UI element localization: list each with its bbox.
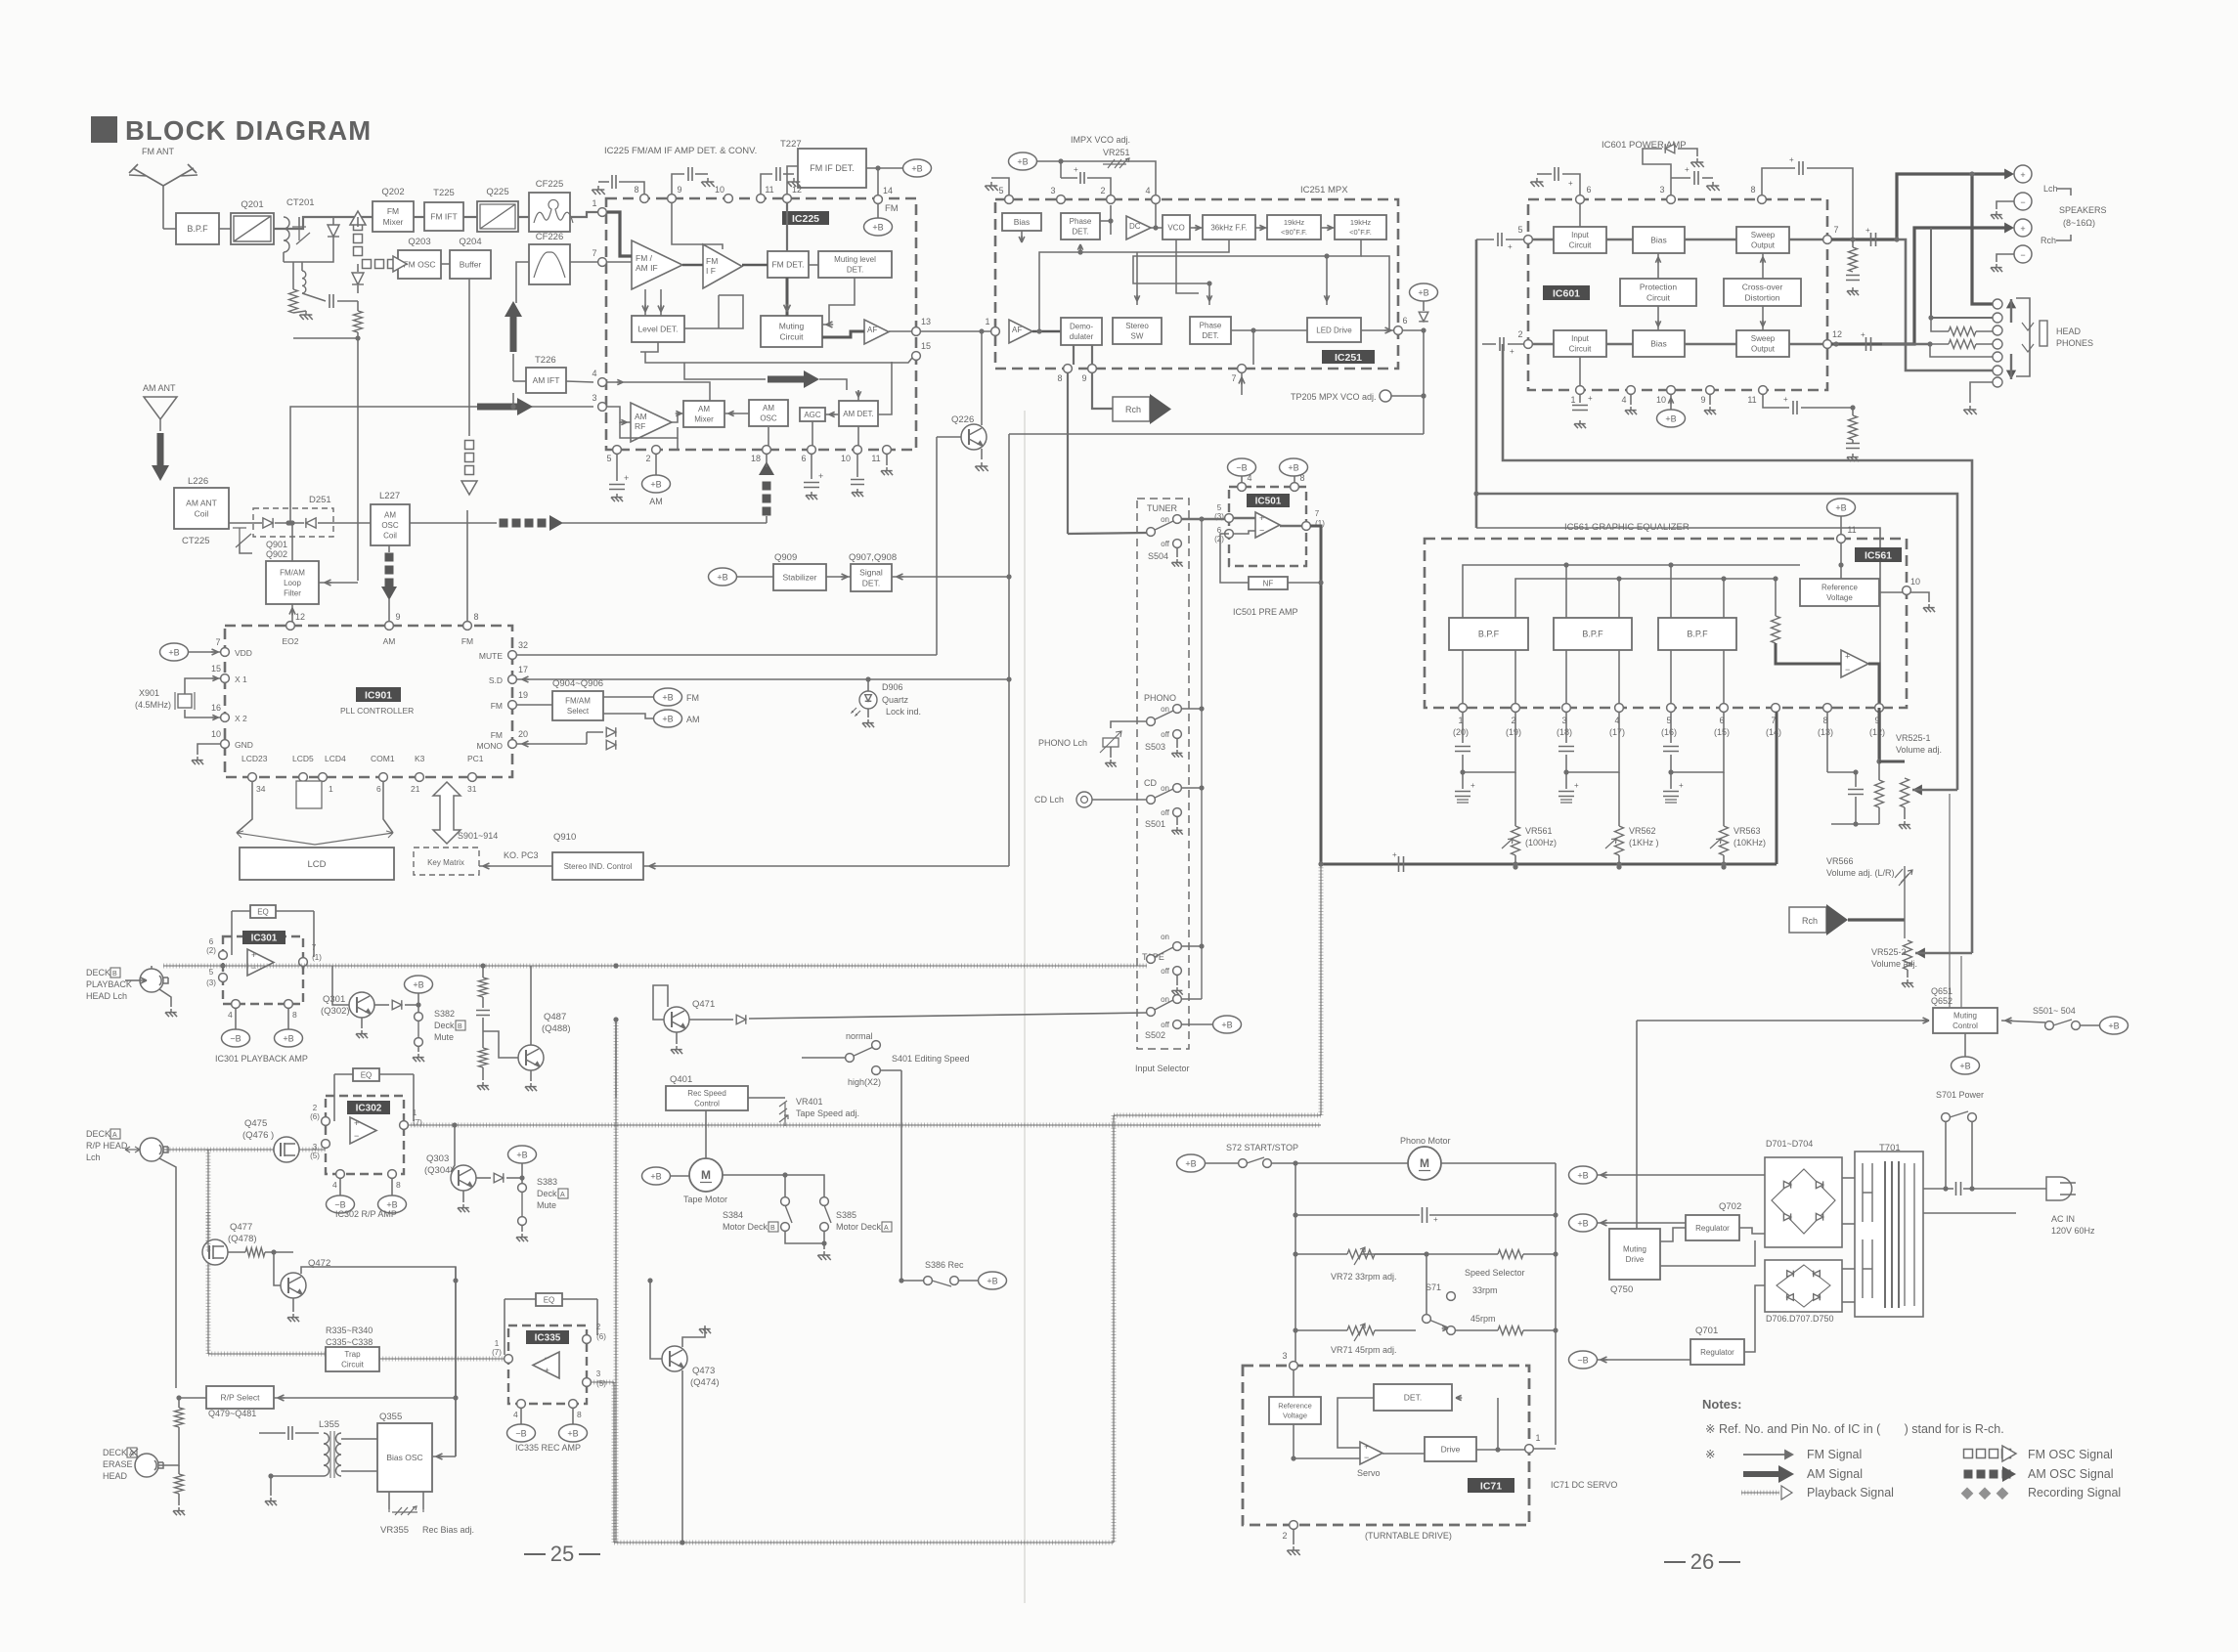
svg-text:(6): (6) [596, 1332, 606, 1341]
pin 1 ic71 [1525, 1433, 1541, 1453]
wire PD2 right to LED [1231, 329, 1307, 331]
svg-text:Output: Output [1751, 241, 1776, 250]
svg-text:B.P.F: B.P.F [187, 224, 208, 234]
wire pin6 net right [1402, 329, 1424, 331]
svg-text:VR72 33rpm adj.: VR72 33rpm adj. [1331, 1272, 1397, 1282]
block Protection Circuit [1620, 279, 1696, 306]
wire phase2 up [1208, 283, 1210, 305]
wire LCD fanout left [237, 781, 252, 833]
wire select bottom [578, 720, 587, 732]
svg-text:+: + [251, 950, 256, 960]
svg-text:4: 4 [332, 1180, 337, 1190]
svg-text:3: 3 [596, 1369, 601, 1378]
wire s72 to motor [1271, 1162, 1408, 1164]
svg-text:+B: +B [650, 479, 661, 489]
svg-text:PHONO: PHONO [1144, 693, 1176, 703]
tag IC501 [1247, 494, 1290, 507]
+B supply T227 [903, 159, 932, 177]
switch S503 blade [1151, 711, 1173, 721]
svg-text:4: 4 [1145, 186, 1150, 196]
svg-text:8: 8 [396, 1180, 401, 1190]
svg-text:+B: +B [1665, 413, 1676, 423]
svg-text:−B: −B [1577, 1355, 1588, 1365]
svg-text:(18): (18) [1557, 727, 1572, 737]
capacitor eq1 [1462, 712, 1464, 743]
svg-text:9: 9 [395, 612, 400, 622]
pin 2(6) ic302 [322, 1117, 330, 1126]
svg-text:Input: Input [1571, 231, 1590, 239]
wire D251-L227 [333, 522, 371, 524]
wire mutd right [1660, 1228, 1686, 1241]
capacitor out B [1866, 337, 1871, 351]
svg-text:B: B [458, 1023, 462, 1030]
opamp eq [1841, 650, 1868, 677]
svg-text:(4.5MHz): (4.5MHz) [135, 700, 171, 710]
svg-text:+: + [2020, 224, 2025, 234]
block Bias B [1633, 330, 1685, 357]
svg-text:DET.: DET. [1202, 331, 1218, 340]
svg-text:+: + [624, 473, 629, 483]
svg-text:S503: S503 [1145, 742, 1165, 752]
pin 9 [668, 185, 682, 202]
resistor 45 feedback [1498, 1326, 1523, 1335]
wire bus risers to VR pots [1776, 712, 1778, 864]
wire vr251 to pin4 [1142, 161, 1156, 196]
speaker terminal L+ [2014, 165, 2032, 183]
svg-text:−: − [1845, 665, 1850, 674]
legend AM signal arrow [1743, 1465, 1794, 1483]
svg-text:4: 4 [1621, 395, 1626, 405]
+B supply FM [654, 688, 682, 706]
legend AM OSC squares [1964, 1466, 2017, 1482]
svg-text:Q225: Q225 [486, 187, 508, 197]
wire ic501 out [1280, 525, 1302, 527]
svg-text:DET.: DET. [862, 578, 880, 587]
switch S502a off contact [1173, 967, 1182, 976]
svg-text:AM ANT: AM ANT [143, 383, 176, 393]
+B supply S383 [508, 1146, 537, 1163]
arrow into L+ [2004, 169, 2014, 180]
wire Q226 emitter gnd [981, 449, 983, 459]
svg-text:CT225: CT225 [182, 536, 210, 546]
svg-text:on: on [1161, 515, 1169, 524]
capacitor out A [1871, 233, 1876, 246]
svg-text:+B: +B [1185, 1158, 1196, 1168]
block Input Circuit A [1554, 227, 1606, 253]
pin 8 ic301 [285, 1000, 293, 1009]
resistor rip [175, 1408, 184, 1427]
wire reg702 right [1739, 1216, 1765, 1228]
wire q472 base up [274, 1252, 281, 1285]
diode q303 [494, 1173, 504, 1183]
svg-text:5: 5 [1517, 225, 1522, 235]
pin 8 ic501 [1291, 473, 1305, 491]
pin 12 [783, 185, 802, 202]
wire pin12 out net [1831, 342, 1882, 345]
wire T225-Q225 [463, 216, 477, 218]
diode select2 [606, 740, 616, 750]
wire erase head net [158, 1427, 179, 1465]
svg-text:VR355: VR355 [380, 1525, 409, 1536]
svg-text:※ Ref. No. and Pin No. of IC i: ※ Ref. No. and Pin No. of IC in ( ) stan… [1705, 1422, 2004, 1436]
pin 10b [841, 446, 861, 463]
wire ic501 -in [1233, 531, 1255, 534]
svg-text:11: 11 [1847, 525, 1856, 535]
switch S501 pivot [1147, 796, 1156, 804]
+B supply mutctl [1952, 1057, 1980, 1074]
pin 34 LCD23 [248, 773, 257, 782]
svg-text:Q475: Q475 [244, 1118, 267, 1129]
svg-text:8: 8 [1299, 473, 1304, 483]
capacitor s701 [1956, 1182, 1961, 1196]
svg-text:26: 26 [1690, 1549, 1714, 1574]
pin 19 FM [508, 690, 528, 709]
Rch pointer block [1113, 394, 1171, 424]
block AM Mixer [683, 401, 724, 427]
svg-text:PC1: PC1 [467, 754, 484, 763]
legend FM OSC squares [1964, 1446, 2017, 1461]
capacitor pin11 [761, 174, 772, 195]
svg-text:IC225: IC225 [792, 213, 819, 225]
svg-text:X 1: X 1 [235, 674, 247, 684]
switch S502a on contact [1173, 942, 1182, 951]
capacitor C203 [329, 294, 333, 308]
wire sdet right [892, 576, 1009, 578]
pin 8 ic302 [388, 1170, 397, 1179]
wire select to +B [603, 696, 654, 698]
ground tank [299, 311, 313, 320]
electrolytic pin1 [1579, 394, 1581, 403]
AM OSC signal squares to pin18 [759, 461, 774, 516]
svg-text:off: off [1161, 730, 1170, 739]
wire eq1 tap [1463, 712, 1506, 772]
svg-text:Loop: Loop [284, 579, 301, 587]
wire S503 on bus [1181, 708, 1202, 710]
svg-text:+B: +B [413, 979, 423, 989]
wire pin7 to FMAMIF [607, 261, 632, 263]
svg-text:(100Hz): (100Hz) [1525, 838, 1557, 848]
wire pin11 net [1763, 394, 1789, 408]
svg-text:33rpm: 33rpm [1472, 1285, 1498, 1295]
wire q487 collector [538, 966, 540, 1046]
wire pin9 down to FMIF [672, 203, 723, 249]
legend FM signal arrow [1743, 1454, 1786, 1456]
wire q475 to ic302 [299, 1149, 326, 1151]
block NF [1249, 577, 1288, 589]
wire SD line [516, 678, 1009, 680]
svg-text:Level DET.: Level DET. [637, 324, 678, 333]
block Stabilizer [773, 564, 826, 590]
svg-text:FM OSC: FM OSC [403, 259, 435, 269]
wire pin13 to AF2 [920, 330, 991, 332]
svg-text:Muting: Muting [779, 321, 805, 330]
svg-text:7: 7 [1833, 225, 1838, 235]
svg-text:IC251: IC251 [1335, 352, 1362, 364]
svg-text:S384: S384 [723, 1210, 743, 1220]
block FM/AM Select [552, 691, 603, 720]
wire stab-sdet [826, 576, 851, 578]
wire AMDET-AGC [825, 413, 839, 415]
wire q487 base [483, 1036, 518, 1058]
block Bias A [1633, 227, 1685, 253]
svg-text:D706.D707.D750: D706.D707.D750 [1766, 1314, 1834, 1324]
svg-text:off: off [1161, 540, 1170, 548]
switch S501 off contact [1173, 808, 1182, 817]
svg-text:IC71 DC SERVO: IC71 DC SERVO [1551, 1480, 1617, 1490]
wire demod pin9 [1091, 345, 1093, 365]
wire s386 feed [456, 1280, 924, 1282]
wire AF2 loop up [1039, 252, 1080, 331]
svg-text:FM: FM [387, 206, 399, 216]
lcd fan lines [237, 833, 393, 845]
pin 2 ic71 [1282, 1521, 1297, 1541]
svg-text:R335~R340: R335~R340 [326, 1326, 373, 1335]
wire DC-VCO [1151, 227, 1163, 229]
svg-text:B: B [112, 971, 117, 978]
svg-text:Q202: Q202 [381, 187, 404, 197]
block B.P.F [176, 213, 219, 244]
tag IC561 [1855, 547, 1902, 562]
block Reference Voltage eq [1800, 579, 1879, 606]
svg-text:+B: +B [662, 692, 673, 702]
svg-text:19kHz: 19kHz [1284, 218, 1305, 227]
svg-text:Voltage: Voltage [1283, 1412, 1307, 1420]
wire ic501 +in [1233, 517, 1255, 519]
wire buffer down to pin8 [468, 279, 470, 436]
svg-text:+: + [1568, 179, 1573, 188]
block RIP Select [206, 1386, 274, 1409]
svg-text:(3): (3) [206, 978, 216, 987]
svg-text:Cross-over: Cross-over [1742, 282, 1783, 291]
record signal down [613, 1382, 615, 1543]
wire high riser [880, 1069, 901, 1071]
block LED Drive [1307, 318, 1361, 342]
svg-text:CD Lch: CD Lch [1034, 795, 1064, 804]
svg-text:+: + [818, 471, 823, 481]
svg-text:Volume adj.: Volume adj. [1896, 745, 1942, 755]
wire pin1 to FMAMIF thick [607, 212, 632, 256]
wire bridge1 to T701 [1842, 1177, 1855, 1179]
pin 17 SD [508, 665, 528, 683]
wire vr561 leg [1514, 772, 1516, 826]
wire q301 base [332, 966, 349, 999]
transistor Q472 [281, 1273, 306, 1298]
svg-text:36kHz F.F.: 36kHz F.F. [1210, 223, 1247, 232]
svg-text:Select: Select [567, 707, 590, 716]
op-amp IC302 [350, 1117, 376, 1144]
block Stereo IND Control [552, 852, 643, 880]
svg-text:−: − [2020, 250, 2025, 260]
wire Q226 base [937, 436, 961, 438]
svg-text:19: 19 [518, 690, 528, 700]
svg-text:+B: +B [1017, 156, 1028, 166]
pin 7 VDD [215, 637, 229, 656]
FM OSC signal squares vertical [350, 211, 366, 256]
AM OSC signal squares vertical L227 [381, 553, 397, 601]
switch S502b blade [1151, 1000, 1173, 1012]
svg-text:10: 10 [1910, 577, 1920, 587]
pot VR355 [392, 1511, 417, 1513]
wire AM line to pin3 [290, 407, 593, 523]
svg-text:IC225 FM/AM IF AMP DET. & CONV: IC225 FM/AM IF AMP DET. & CONV. [604, 146, 757, 156]
wire pin7 out net [1831, 238, 1897, 240]
ground pin11 [886, 454, 888, 465]
svg-text:Bias: Bias [1014, 217, 1031, 227]
pin 8 FM [463, 612, 479, 630]
wire loop filter out [319, 582, 358, 584]
wire reg701 right [1744, 1302, 1765, 1352]
wire servo-drive [1382, 1453, 1425, 1455]
wire IN2-BiasB [1606, 343, 1633, 345]
pin 1 [592, 198, 606, 216]
pin 5l [1517, 225, 1532, 243]
svg-text:7: 7 [1231, 373, 1236, 383]
svg-text:25: 25 [550, 1542, 574, 1566]
svg-text:+: + [354, 1118, 359, 1128]
+B supply rect2 [1569, 1214, 1598, 1232]
pin 3 [592, 393, 606, 411]
antenna AM ANT [144, 397, 177, 431]
pin 2l [1517, 329, 1532, 348]
wire +B to vr251 row [1036, 160, 1142, 162]
wire FM ANT to BPF [163, 228, 176, 230]
block Regulator Q702 [1686, 1215, 1739, 1240]
wire FM line to select [516, 704, 552, 706]
pin 5 eq-bottom [1667, 704, 1676, 713]
svg-text:FM IF DET.: FM IF DET. [810, 163, 855, 173]
svg-text:+: + [1789, 155, 1794, 164]
electrolytic pin6 [811, 454, 812, 479]
svg-text:+B: +B [1577, 1170, 1588, 1180]
wire motor right rail [1441, 1162, 1556, 1164]
headphone jack contacts [1993, 299, 2002, 309]
svg-text:Mute: Mute [434, 1032, 454, 1042]
svg-text:19kHz: 19kHz [1350, 218, 1372, 227]
svg-text:2: 2 [1282, 1531, 1287, 1541]
switch S504 pivot [1147, 528, 1156, 537]
block DET 71 [1374, 1384, 1452, 1411]
AM arrow mid [768, 370, 819, 388]
wire PD-DC [1100, 220, 1111, 222]
svg-text:6: 6 [209, 937, 214, 946]
wire q471 gnd [676, 1032, 678, 1044]
wire drive out [1476, 1449, 1525, 1451]
svg-text:SPEAKERS: SPEAKERS [2059, 205, 2107, 215]
wire BiasA-SWA [1685, 239, 1736, 240]
amplifier AF1 [864, 320, 889, 344]
svg-text:IC561: IC561 [1865, 549, 1892, 561]
svg-text:−B: −B [1236, 462, 1247, 472]
diode D202 [357, 264, 359, 272]
svg-text:AM: AM [686, 715, 700, 724]
svg-text:DET.: DET. [1404, 1392, 1422, 1402]
svg-text:+B: +B [1835, 502, 1846, 512]
wire q473 emitter down [681, 1370, 683, 1543]
ground s385 [817, 1251, 831, 1260]
IC601 boundary dashed [1528, 199, 1827, 390]
pin 11 eq [1837, 525, 1857, 543]
op-amp IC301 [247, 949, 274, 976]
wire L355 prim [259, 1433, 271, 1476]
svg-text:6: 6 [1586, 185, 1591, 195]
potentiometer VR525-2 [1904, 940, 1912, 970]
+B supply stab [709, 568, 737, 586]
wire MLD down to MC [822, 278, 855, 325]
IC71 boundary dashed [1243, 1366, 1529, 1525]
block Sweep Output B [1736, 330, 1789, 357]
svg-text:21: 21 [411, 784, 420, 794]
svg-text:Q701: Q701 [1695, 1326, 1718, 1336]
svg-text:FM: FM [706, 256, 718, 266]
svg-text:1: 1 [985, 317, 989, 326]
wire q477 gate [207, 1212, 209, 1252]
svg-text:6: 6 [1402, 316, 1407, 326]
block Bias OSC [377, 1423, 432, 1492]
svg-text:MUTE: MUTE [479, 651, 503, 661]
svg-text:VR566: VR566 [1826, 856, 1854, 866]
svg-text:Stabilizer: Stabilizer [783, 572, 817, 582]
+B supply AM [642, 475, 671, 493]
wire pin8 pin9 legs [1826, 712, 1828, 772]
svg-text:2: 2 [313, 1104, 318, 1112]
wire pin1 to rail [1533, 1448, 1556, 1450]
wire eq opamp fb [1827, 671, 1849, 684]
resistor q477 drain [245, 1248, 265, 1257]
tag IC301 [242, 931, 285, 944]
wire FMDET down to MC [786, 278, 789, 316]
svg-text:LCD5: LCD5 [292, 754, 314, 763]
node pb junctions [220, 963, 225, 968]
svg-text:NF: NF [1263, 579, 1274, 587]
wire ic302 +in link [319, 1121, 326, 1144]
svg-text:VR563: VR563 [1733, 826, 1761, 836]
svg-text:FM OSC Signal: FM OSC Signal [2028, 1448, 2113, 1461]
svg-text:Circuit: Circuit [1569, 345, 1592, 354]
pin 5t [998, 186, 1013, 203]
wire pin7b tp205 net [1009, 433, 1424, 435]
svg-text:−: − [354, 1131, 359, 1141]
+B supply pin14 [864, 218, 893, 236]
svg-text:Q902: Q902 [266, 549, 287, 559]
svg-text:8: 8 [1750, 185, 1755, 195]
wire RV-pin10 [1879, 591, 1903, 593]
capacitor C251 [1060, 161, 1062, 178]
block L226 AM ANT Coil [174, 488, 229, 529]
+B supply AM2 [654, 710, 682, 727]
svg-text:PLL CONTROLLER: PLL CONTROLLER [340, 706, 414, 716]
pin 2b [645, 446, 660, 463]
svg-text:L226: L226 [188, 476, 208, 487]
amplifier DC [1126, 216, 1151, 239]
wire tuner feed [1068, 533, 1147, 534]
transformer T701 [1855, 1152, 1923, 1317]
svg-text:Circuit: Circuit [1646, 292, 1671, 302]
svg-text:Protection: Protection [1640, 282, 1678, 291]
wire s501-504 to mut [2001, 1020, 2024, 1022]
svg-text:FM IFT: FM IFT [430, 211, 457, 221]
svg-text:PLAYBACK: PLAYBACK [86, 979, 132, 989]
wire s384 s385 join [785, 1231, 824, 1243]
capacitor eq3 [1565, 712, 1567, 743]
svg-text:FM/AM: FM/AM [280, 568, 305, 577]
svg-text:Q487: Q487 [544, 1012, 566, 1022]
svg-text:D701~D704: D701~D704 [1766, 1139, 1813, 1149]
svg-text:16: 16 [211, 703, 221, 713]
wire bias osc right [432, 1456, 456, 1457]
IC301 boundary dashed [223, 936, 303, 1004]
wire rip left [179, 1397, 206, 1399]
svg-text:KO. PC3: KO. PC3 [504, 850, 539, 860]
